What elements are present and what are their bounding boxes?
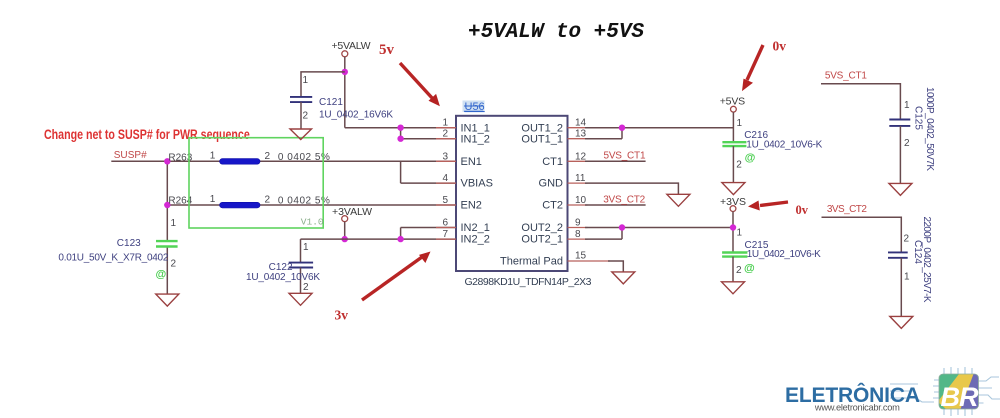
pin 15 stub (568, 260, 611, 262)
arrow 3v to IC (362, 257, 422, 300)
node junction +3VS/pin9 (730, 224, 736, 230)
wire C122 lower to ground (300, 268, 302, 294)
svg-text:1U_0402_10V6-K: 1U_0402_10V6-K (746, 140, 822, 151)
node junction pin1 branch (397, 125, 403, 131)
svg-text:@: @ (745, 152, 756, 164)
capacitor C215 (722, 253, 747, 257)
green revision box (189, 138, 323, 228)
svg-text:BR: BR (941, 382, 980, 412)
arrow 5v to IC (400, 63, 433, 99)
svg-text:0.01U_50V_K_X7R_0402: 0.01U_50V_K_X7R_0402 (58, 253, 168, 264)
pin 1 stub (436, 127, 456, 129)
node junction pins 8/9 (619, 224, 625, 230)
svg-text:VBIAS: VBIAS (461, 178, 493, 190)
pin 13 stub (568, 138, 588, 140)
wire +5VS down to C216 (732, 112, 734, 142)
wire C124 lower to ground (900, 258, 902, 317)
pin 12 stub (568, 160, 588, 162)
node junction +3VALW (342, 236, 348, 242)
wire branch to pin 6 (401, 228, 456, 240)
pin 10 stub (568, 204, 588, 206)
wire pin 13 branch (585, 128, 622, 139)
svg-text:www.eletronicabr.com: www.eletronicabr.com (814, 403, 900, 413)
svg-text:2: 2 (303, 282, 309, 293)
ground below C122 (289, 293, 312, 305)
svg-text:12: 12 (575, 151, 587, 162)
svg-text:1U_0402_16V6K: 1U_0402_16V6K (319, 110, 393, 121)
node junction SUSP/R263 (164, 158, 170, 164)
svg-text:2: 2 (303, 111, 309, 122)
arrow 0v to +3VS (760, 202, 788, 206)
svg-text:IN1_2: IN1_2 (461, 133, 490, 145)
svg-text:@: @ (744, 263, 755, 275)
capacitor C124 (888, 252, 908, 257)
wire +3VALW down (344, 222, 346, 239)
wire C121 lower to ground (300, 102, 302, 129)
svg-text:IN2_2: IN2_2 (461, 234, 490, 246)
resistor R263 (220, 159, 260, 165)
capacitor C121 (290, 97, 312, 102)
svg-text:1: 1 (904, 100, 910, 111)
svg-text:C123: C123 (117, 238, 141, 249)
pin 9 stub (568, 227, 588, 229)
svg-text:0v: 0v (796, 203, 809, 217)
svg-text:2: 2 (171, 259, 177, 270)
svg-text:EN1: EN1 (461, 156, 482, 168)
svg-text:14: 14 (575, 118, 587, 129)
svg-text:SUSP#: SUSP# (114, 150, 147, 161)
svg-text:2: 2 (265, 194, 271, 205)
op IC U56 box (456, 116, 568, 271)
wire R264 output to pin 5 (167, 204, 456, 206)
svg-text:15: 15 (575, 251, 587, 262)
svg-text:5v: 5v (379, 42, 395, 58)
svg-text:1: 1 (303, 75, 309, 86)
wire +3VALW to pin 7 (345, 238, 456, 240)
svg-text:0v: 0v (773, 39, 787, 54)
svg-text:OUT2_1: OUT2_1 (521, 234, 563, 246)
svg-text:10: 10 (575, 195, 587, 206)
ground below C123 (156, 294, 179, 306)
svg-text:2: 2 (904, 234, 910, 245)
svg-text:2: 2 (904, 138, 910, 149)
svg-text:13: 13 (575, 129, 587, 140)
svg-text:0 0402 5%: 0 0402 5% (278, 196, 330, 207)
svg-text:8: 8 (575, 229, 581, 240)
ground thermal pad (612, 272, 635, 284)
svg-text:+5VS: +5VS (720, 96, 746, 108)
svg-text:OUT2_2: OUT2_2 (521, 222, 563, 234)
node junction +5VALW/C121 (342, 69, 348, 75)
svg-text:1: 1 (737, 228, 743, 239)
svg-text:3VS_CT2: 3VS_CT2 (603, 194, 645, 205)
wire pin 14 to +5VS (585, 127, 733, 129)
svg-text:EN2: EN2 (461, 200, 482, 212)
pin 4 stub (436, 182, 456, 184)
wire pin 10 CT2 (585, 204, 646, 206)
wire 5VS_CT1 to C125 (821, 84, 900, 120)
wire 3VS_CT2 to C124 (822, 217, 902, 252)
svg-text:6: 6 (442, 218, 448, 229)
pin 8 stub (568, 238, 588, 240)
svg-text:@: @ (156, 269, 167, 281)
node junction SUSP/R264 (164, 202, 170, 208)
svg-text:1: 1 (303, 242, 309, 253)
wire +3VS down to C215 (732, 212, 734, 253)
ground below C216 (722, 183, 745, 195)
svg-text:Change net to SUSP# for PWR se: Change net to SUSP# for PWR sequence (44, 127, 250, 143)
wire C215 lower to ground (732, 257, 734, 282)
ground GND pin 11 (667, 194, 690, 206)
svg-text:C125: C125 (913, 106, 924, 130)
capacitor C122 (289, 263, 313, 268)
wire C125 lower to ground (899, 126, 901, 183)
svg-text:1: 1 (904, 272, 910, 283)
capacitor C216 (722, 142, 746, 146)
wire branch to C121 (301, 72, 345, 97)
wire pin 15 to ground (608, 261, 623, 272)
svg-text:CT1: CT1 (542, 156, 563, 168)
wire C216 lower to ground (732, 146, 734, 183)
wire pin 12 CT1 (585, 160, 646, 162)
pin 3 stub (436, 160, 456, 162)
svg-text:2200P_0402_25V7-K: 2200P_0402_25V7-K (921, 217, 932, 303)
svg-text:5VS_CT1: 5VS_CT1 (825, 71, 867, 82)
svg-text:OUT1_1: OUT1_1 (521, 133, 563, 145)
svg-text:+5VALW to +5VS: +5VALW to +5VS (468, 21, 644, 44)
ground below C215 (722, 282, 745, 294)
wire +5VALW down (344, 57, 346, 128)
svg-text:0 0402 5%: 0 0402 5% (278, 152, 330, 163)
svg-text:+3VALW: +3VALW (332, 206, 372, 218)
svg-text:1: 1 (171, 218, 177, 229)
wire pin 9 to +3VS (585, 227, 733, 229)
refdes U56 (463, 101, 485, 113)
svg-text:1000P_0402_50V7K: 1000P_0402_50V7K (924, 87, 935, 171)
ground below C121 (290, 129, 312, 140)
svg-text:4: 4 (442, 173, 448, 184)
ground below C125 (889, 183, 912, 195)
node junction pin2 branch (397, 136, 403, 142)
pin 11 stub (568, 182, 588, 184)
resistor R264 (220, 202, 260, 208)
svg-text:2: 2 (265, 151, 271, 162)
svg-text:3v: 3v (335, 308, 349, 323)
wire branch to pin 2 (401, 128, 456, 139)
ground below C124 (890, 316, 913, 328)
node junction pins 13/14 (619, 125, 625, 131)
svg-text:V1.0: V1.0 (301, 217, 324, 228)
wire vertical branch to R264/C123 (166, 161, 168, 241)
svg-text:11: 11 (575, 173, 586, 184)
wire C123 lower to ground (166, 247, 168, 295)
wire +5VALW to pin 1 (345, 127, 456, 129)
capacitor C123 (156, 241, 178, 246)
pin 7 stub (436, 238, 456, 240)
svg-text:5: 5 (442, 195, 448, 206)
svg-text:1: 1 (210, 150, 216, 161)
wire SUSP# net horizontal to pin 3 (111, 160, 456, 162)
svg-text:2: 2 (736, 159, 742, 170)
svg-text:1U_0402_10V6K: 1U_0402_10V6K (246, 272, 320, 283)
svg-text:3: 3 (442, 151, 448, 162)
wire branch to C122 (301, 239, 345, 263)
svg-text:3VS_CT2: 3VS_CT2 (827, 204, 867, 215)
svg-text:1: 1 (737, 118, 743, 129)
svg-text:2: 2 (442, 129, 448, 140)
wire pin 11 to ground (585, 183, 678, 194)
pin 5 stub (436, 204, 456, 206)
svg-text:C121: C121 (319, 97, 343, 108)
svg-text:7: 7 (442, 229, 448, 240)
pin 6 stub (436, 227, 456, 229)
pin 14 stub (568, 127, 588, 129)
wire branch EN1 net down to pin 4 (401, 161, 456, 183)
arrow 0v to +5VS (747, 45, 763, 80)
svg-text:1: 1 (210, 194, 216, 205)
svg-text:2: 2 (736, 265, 742, 276)
svg-text:1U_0402_10V6-K: 1U_0402_10V6-K (747, 249, 821, 260)
svg-text:Thermal Pad: Thermal Pad (500, 256, 563, 268)
svg-text:5VS_CT1: 5VS_CT1 (604, 151, 646, 162)
logo circuit traces (890, 367, 1000, 416)
svg-text:IN2_1: IN2_1 (461, 222, 490, 234)
wire pin 8 branch (585, 228, 622, 240)
svg-text:1: 1 (442, 118, 448, 129)
capacitor C125 (889, 120, 910, 126)
pin 2 stub (436, 138, 456, 140)
svg-text:GND: GND (539, 178, 564, 190)
svg-text:+5VALW: +5VALW (332, 40, 371, 52)
svg-text:9: 9 (575, 218, 581, 229)
logo chip BR (939, 374, 979, 412)
node junction pin7 branch (397, 236, 403, 242)
svg-text:CT2: CT2 (542, 200, 563, 212)
svg-text:G2898KD1U_TDFN14P_2X3: G2898KD1U_TDFN14P_2X3 (465, 276, 592, 288)
